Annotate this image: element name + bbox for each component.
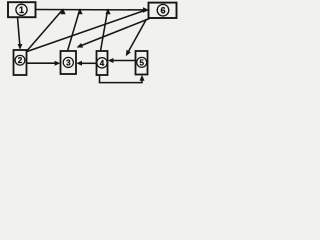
box 1 [8,2,36,17]
box 6 [149,3,177,18]
node 1 circled [16,4,27,15]
node 4 circled [97,58,107,68]
box 5 [136,51,148,75]
wire box3 up to top line at x80 [68,10,80,51]
box 2 [14,50,27,75]
node 6 circled [157,4,169,16]
box 3 [61,51,77,74]
arrowhead into box3 left [55,61,61,66]
wire box1 down to box2 [18,17,20,45]
wire box6 short diagonal down-left [128,19,147,52]
node 2 circled [15,55,25,65]
wire box2 to box3 horizontal [27,62,57,64]
wire box2 long diagonal to box6 arrow [27,11,145,52]
svg-text:6: 6 [160,5,165,15]
wire box5 to box4 horizontal [112,60,136,62]
svg-text:2: 2 [18,56,23,65]
svg-text:5: 5 [139,58,144,67]
arrowhead up into box5 bottom [140,75,145,81]
arrowhead into box3 right from box4 [76,61,82,66]
box 4 [97,51,108,75]
arrowhead into box6 left [143,7,149,12]
svg-text:4: 4 [100,59,105,68]
arrowhead of wire box6 short diagonal [126,50,131,57]
svg-text:1: 1 [19,5,24,15]
node 5 circled [137,57,147,67]
arrowhead up at x80 [77,8,82,14]
node 3 circled [63,57,73,67]
wire box2 diagonal up to top line at x63 [27,10,63,51]
wire box4 to box3 horizontal [81,62,97,64]
svg-text:3: 3 [66,58,71,67]
wire box4 bottom loop to box5 bottom [100,75,143,83]
wire box6 diagonal down to box3 top-right [81,19,150,46]
arrowhead down into box2 top [18,44,23,50]
arrowhead into box4 right from box5 [108,58,114,63]
arrowhead up at x108 [105,8,110,14]
arrowhead up at x63 [60,8,65,14]
wire box4 up to top line at x108 [101,10,108,51]
arrowhead of wire box6 to box3 [77,43,84,48]
wire top horizontal from box1 to box6 [36,9,145,11]
